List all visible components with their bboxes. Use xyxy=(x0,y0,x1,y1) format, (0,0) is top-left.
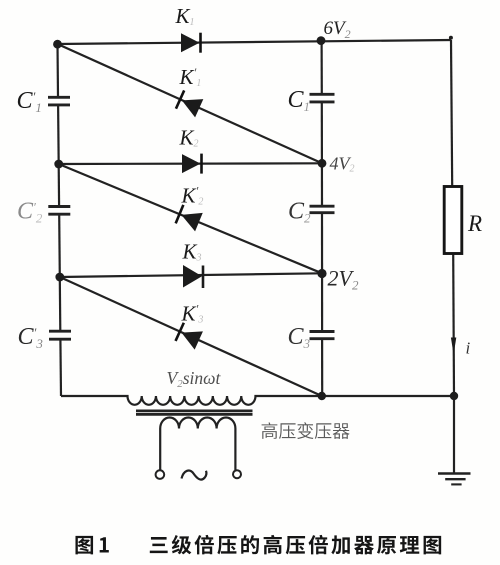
wire row3 (left node to 2V node) xyxy=(60,273,322,277)
primary terminal left xyxy=(156,470,165,479)
diode K'2 (diagonal 2) xyxy=(176,205,203,232)
label gaoya bianyaqi (high-voltage transformer) xyxy=(262,422,278,439)
diode K3 (bottom horizontal) xyxy=(183,265,202,288)
svg-text:K3: K3 xyxy=(182,240,202,264)
wire middle rail segment 4 xyxy=(321,339,323,396)
wire left rail segment 4 xyxy=(59,339,62,396)
svg-text:K′2: K′2 xyxy=(181,184,204,208)
wire left rail segment 3 xyxy=(59,214,60,331)
capacitor C3 plates xyxy=(310,330,335,333)
diode K2 (middle horizontal) xyxy=(182,154,201,173)
transformer core xyxy=(136,410,253,413)
wire right rail lower (resistor to bottom node) xyxy=(452,254,455,397)
node 6V xyxy=(317,36,326,45)
svg-text:2V2: 2V2 xyxy=(328,266,359,293)
wire right rail upper (to resistor) xyxy=(451,40,452,187)
AC source tilde xyxy=(182,471,207,480)
transformer primary winding xyxy=(160,417,235,470)
ground bars xyxy=(438,472,471,475)
svg-text:C2: C2 xyxy=(288,199,311,226)
node bottom right xyxy=(450,392,458,400)
svg-text:V2sinωt: V2sinωt xyxy=(167,368,222,390)
ground stem xyxy=(453,396,455,473)
wire row2 (left node to 4V node) xyxy=(59,162,322,165)
wire left rail segment 1 xyxy=(56,44,59,97)
wire middle rail segment 2 xyxy=(321,102,323,206)
node row3 left xyxy=(55,273,64,282)
svg-text:6V2: 6V2 xyxy=(324,18,351,41)
wire diagonal 2 (row2 left node to 2V node) xyxy=(59,164,322,273)
capacitor C'3 plates xyxy=(49,330,71,333)
svg-text:K′3: K′3 xyxy=(181,302,204,326)
svg-text:C′1: C′1 xyxy=(17,88,42,115)
caption: Fig.1 three-stage voltage multiplier schematic xyxy=(75,536,93,554)
svg-text:C′3: C′3 xyxy=(18,324,44,351)
node 2V xyxy=(317,269,326,278)
svg-text:C′2: C′2 xyxy=(17,199,43,226)
svg-text:K′1: K′1 xyxy=(179,65,202,89)
wire middle rail segment 3 xyxy=(321,213,323,332)
diode K1 (top horizontal) xyxy=(181,33,200,52)
wire diagonal 3 (row3 left node to bottom mid node) xyxy=(60,277,322,396)
svg-text:R: R xyxy=(467,211,482,236)
svg-text:K1: K1 xyxy=(175,4,195,28)
capacitor C2 plates xyxy=(310,205,335,208)
svg-text:i: i xyxy=(466,339,471,358)
wire bottom (with transformer secondary winding) xyxy=(61,396,454,405)
primary terminal right xyxy=(233,470,241,478)
capacitor C1 plates xyxy=(310,93,335,96)
svg-text:K2: K2 xyxy=(179,126,199,150)
diode K'3 (diagonal 3) xyxy=(176,323,203,350)
node bottom mid xyxy=(318,392,326,400)
node top-left xyxy=(53,40,62,49)
capacitor C'2 plates xyxy=(48,205,70,208)
node top right corner tick xyxy=(449,36,453,40)
wire row1 (top, left node to right rail) xyxy=(58,40,452,44)
wire left rail segment 2 xyxy=(58,105,59,207)
current arrow i xyxy=(451,338,456,355)
wire middle rail segment 1 xyxy=(321,41,323,95)
node 4V xyxy=(318,159,327,168)
svg-text:C3: C3 xyxy=(288,324,311,351)
node row2 left xyxy=(54,160,63,169)
resistor R body xyxy=(444,187,462,254)
diode K'1 (diagonal 1) xyxy=(176,90,203,117)
svg-text:4V2: 4V2 xyxy=(330,154,355,175)
wire diagonal 1 (top-left node to 4V node) xyxy=(58,44,323,163)
capacitor C'1 plates xyxy=(48,96,70,99)
svg-text:C1: C1 xyxy=(288,87,311,114)
